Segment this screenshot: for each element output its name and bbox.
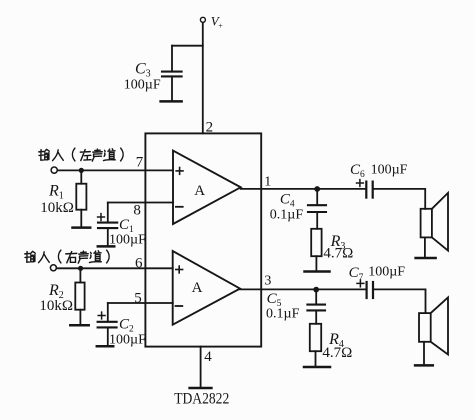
svg-text:0.1µF: 0.1µF (270, 208, 304, 223)
svg-text:100µF: 100µF (109, 333, 146, 348)
ground of R2 (70, 324, 88, 327)
wire C7 to speaker 2 (374, 289, 425, 313)
svg-text:C7: C7 (349, 265, 364, 283)
speaker LS2 lead (423, 342, 425, 364)
capacitor C5 top lead (315, 290, 317, 304)
wire pin7 input (58, 169, 174, 171)
wire pin6 input (57, 267, 173, 269)
label input left channel (39, 148, 123, 161)
capacitor C4 bottom lead (316, 213, 318, 229)
op-amp U1b triangle (173, 251, 240, 325)
node V+ supply terminal (200, 17, 205, 22)
svg-text:A: A (192, 280, 203, 296)
capacitor C3 top lead (171, 46, 173, 71)
resistor R4 bottom lead (315, 351, 317, 366)
svg-text:100µF: 100µF (124, 78, 161, 93)
svg-text:4.7Ω: 4.7Ω (323, 246, 353, 262)
svg-text:A: A (194, 183, 205, 199)
capacitor C6 plates (365, 182, 367, 198)
speaker LS1 body (421, 209, 432, 238)
ground of speaker LS2 (415, 364, 433, 367)
polarity plus of C6 (357, 182, 364, 184)
resistor R1 body (76, 184, 86, 210)
node junction R2 (78, 266, 83, 271)
wire pin1 output (241, 188, 365, 190)
svg-text:5: 5 (134, 291, 142, 307)
label input right channel (25, 250, 109, 263)
node junction pin1 (314, 186, 320, 192)
polarity plus of C7 (357, 282, 364, 284)
wire pin3 output (240, 288, 365, 290)
op-amp U1a triangle (173, 151, 241, 224)
resistor R3 bottom lead (315, 256, 317, 270)
ground of R3 (305, 270, 330, 273)
resistor R2 leads (79, 270, 81, 283)
capacitor C3 bottom lead (171, 77, 173, 100)
op-amp U1a plus input mark (176, 170, 183, 172)
svg-text:3: 3 (264, 274, 271, 289)
wire branch to C3 (172, 45, 203, 47)
svg-text:4: 4 (204, 349, 212, 365)
capacitor C2 plates (98, 321, 117, 323)
svg-text:100µF: 100µF (109, 233, 146, 248)
svg-text:2: 2 (206, 119, 214, 135)
svg-text:10kΩ: 10kΩ (40, 200, 74, 216)
capacitor C4 plates (308, 204, 326, 206)
capacitor C1 plates (98, 222, 117, 224)
svg-text:1: 1 (264, 175, 271, 190)
ground of C1 (98, 245, 114, 248)
speaker LS2 body (419, 313, 431, 342)
capacitor C2 top lead (107, 303, 109, 321)
input terminal left channel (51, 167, 57, 173)
capacitor C7 plates (366, 282, 368, 298)
capacitor C4 top lead (316, 189, 318, 204)
node junction pin3 (313, 287, 319, 293)
wire pin8 (108, 202, 173, 204)
svg-text:8: 8 (133, 203, 141, 219)
polarity plus of C1 (98, 216, 105, 218)
svg-text:V+: V+ (211, 14, 223, 31)
svg-text:10kΩ: 10kΩ (39, 298, 73, 314)
speaker LS2 horn (431, 297, 448, 354)
op-amp U1b plus input mark (176, 269, 183, 271)
wire pin4 (200, 347, 202, 387)
ground of C3 (161, 100, 182, 103)
svg-text:0.1µF: 0.1µF (266, 307, 300, 322)
wire pin5 (108, 302, 173, 304)
capacitor C1 top lead (107, 203, 109, 222)
svg-text:100µF: 100µF (371, 163, 408, 178)
svg-text:100µF: 100µF (368, 265, 405, 280)
polarity plus of C2 (98, 315, 105, 317)
input terminal right channel (50, 265, 56, 271)
speaker LS1 lead (424, 237, 426, 256)
capacitor C3 plates (162, 71, 182, 73)
ground of speaker LS1 (416, 257, 436, 260)
resistor R1 leads (80, 172, 82, 184)
svg-text:TDA2822: TDA2822 (174, 391, 229, 408)
wire C6 to speaker 1 (374, 189, 425, 209)
ground of pin4 (190, 387, 212, 390)
node junction R1 (79, 168, 84, 173)
svg-text:7: 7 (136, 155, 144, 171)
capacitor C5 plates (307, 304, 325, 306)
resistor R4 body (310, 324, 321, 351)
wire V+ down to pin 2 (202, 23, 204, 134)
capacitor C5 bottom lead (315, 311, 317, 324)
svg-text:6: 6 (135, 255, 143, 271)
svg-text:4.7Ω: 4.7Ω (322, 345, 352, 361)
capacitor C1 bottom lead (107, 229, 109, 245)
op-amp IC outline TDA2822 (145, 133, 261, 346)
svg-text:R1: R1 (48, 183, 64, 202)
ground of R1 (73, 226, 91, 229)
capacitor C2 bottom lead (107, 328, 109, 345)
ground of C2 (97, 345, 113, 348)
op-amp U1b minus input mark (176, 305, 183, 307)
ground of R4 (304, 366, 330, 369)
speaker LS1 horn (432, 193, 448, 251)
resistor R3 body (311, 229, 321, 256)
svg-text:C6: C6 (350, 162, 365, 180)
resistor R2 body (75, 283, 84, 310)
op-amp U1a minus input mark (176, 206, 183, 208)
